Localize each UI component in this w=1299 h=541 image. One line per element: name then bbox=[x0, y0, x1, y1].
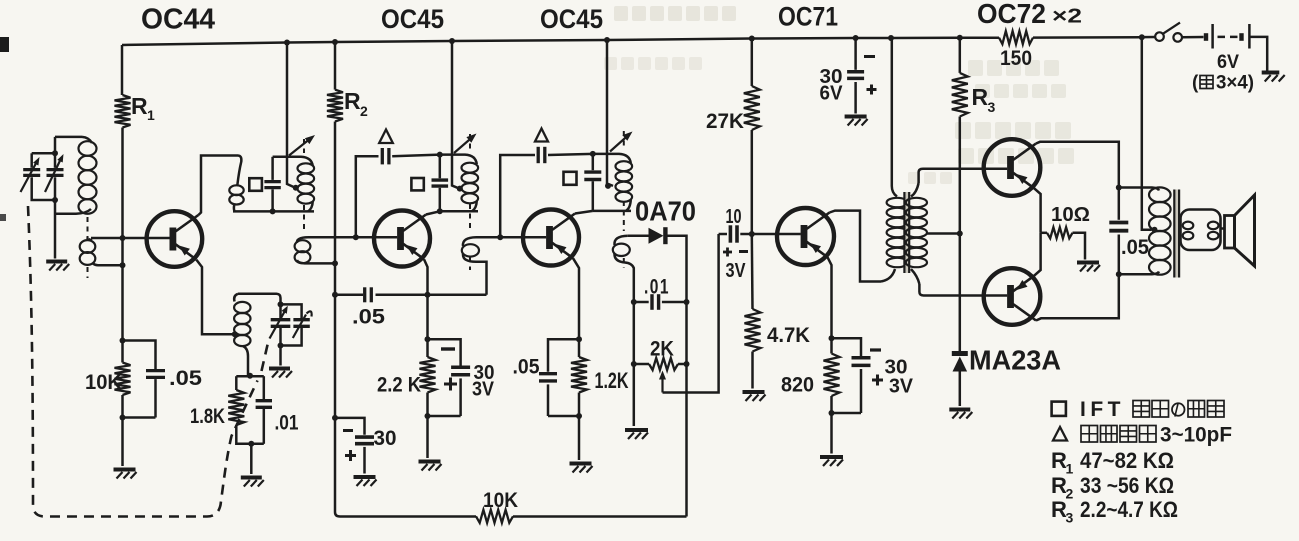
wire: .05 bypass row bbox=[335, 294, 487, 297]
wire: Q1 base bbox=[91, 237, 170, 240]
svg-text:R: R bbox=[344, 88, 361, 114]
svg-text:1.2K: 1.2K bbox=[595, 368, 629, 393]
IFT2 tuned winding (4 loops) bbox=[462, 163, 479, 212]
svg-text:MA23A: MA23A bbox=[969, 345, 1061, 376]
ground (antenna) bbox=[46, 262, 69, 271]
variable capacitor VC2a (osc, ganged) bbox=[270, 306, 291, 339]
square marker (IFT2 cap) bbox=[411, 178, 423, 190]
svg-text:.01: .01 bbox=[644, 276, 670, 299]
capacitor .05 (across T2 primary) bbox=[1109, 188, 1128, 275]
wire: AGC bottom rail bbox=[340, 515, 687, 518]
trimmer arrow (IFT3) bbox=[610, 132, 633, 152]
capacitor 30uF 3V (Q2 emitter) bbox=[451, 367, 470, 416]
svg-text:×2: ×2 bbox=[1052, 6, 1082, 28]
variable capacitor VC1b (antenna trimmer) bbox=[45, 154, 64, 192]
polarity marks (Q2 emitter cap) bbox=[441, 349, 457, 391]
label MA23A bbox=[969, 345, 1061, 376]
wire: Q4 collector bbox=[830, 211, 882, 282]
resistor 4.7K bbox=[745, 234, 761, 389]
svg-text:820: 820 bbox=[781, 374, 814, 397]
polarity marks 30uF AGC bbox=[343, 431, 356, 462]
label 30 3V (Q2) bbox=[472, 362, 495, 401]
transistor Q2 OC45 bbox=[374, 211, 430, 267]
label 150 (rail resistor) bbox=[1000, 47, 1032, 70]
svg-text:4.7K: 4.7K bbox=[767, 324, 810, 347]
trimmer arrow (IFT1) bbox=[289, 135, 315, 156]
label 0A70 bbox=[635, 196, 696, 227]
wire: Q2 base bbox=[308, 236, 397, 239]
svg-text:6V: 6V bbox=[820, 83, 844, 105]
label OC45 (second IF amp) bbox=[540, 4, 603, 34]
capacitor .05 (Q2 stage) bbox=[365, 287, 372, 302]
svg-text:0A70: 0A70 bbox=[635, 196, 696, 227]
bleed-through ghost text (center small) bbox=[604, 57, 952, 184]
svg-text:R: R bbox=[131, 93, 148, 119]
wire: Q3 collector bbox=[575, 211, 593, 214]
svg-text:OC44: OC44 bbox=[141, 4, 215, 36]
wire: antenna top bbox=[55, 136, 82, 139]
diode MA23A bbox=[952, 354, 968, 407]
junction dots (detector left line) bbox=[631, 299, 637, 367]
capacitor (IFT2 tuning) bbox=[432, 155, 449, 212]
capacitor 10uF 3V (AF coupling) bbox=[719, 225, 752, 242]
svg-text:3~10pF: 3~10pF bbox=[1160, 424, 1232, 447]
svg-text:10Ω: 10Ω bbox=[1051, 204, 1090, 226]
junction dot (Q2 emitter/.05) bbox=[425, 292, 431, 298]
ground (30uF 6V) bbox=[845, 117, 868, 126]
wire: T1 secondary bottom to Q6 base bbox=[919, 284, 1007, 296]
battery B1 6V bbox=[1206, 24, 1267, 71]
label 10K bbox=[85, 371, 122, 394]
resistor 10K (AGC) bbox=[476, 510, 513, 523]
wire: 1.8K/.01 bottom join bbox=[236, 425, 263, 474]
legend line 4 R2 bbox=[1051, 473, 1174, 502]
junction dots (R2 line) bbox=[332, 260, 338, 421]
junction dots (detector right line) bbox=[684, 299, 690, 367]
IFT3 secondary coil (to detector) bbox=[613, 236, 634, 426]
junction dots (Q1 bias node) bbox=[120, 235, 126, 268]
T2 secondary winding bbox=[1181, 210, 1221, 251]
resistor 10 ohm bbox=[1041, 227, 1085, 259]
ground (4.7K) bbox=[743, 392, 766, 401]
label .05 (Q1) bbox=[169, 367, 202, 390]
svg-text:3×4): 3×4) bbox=[1216, 73, 1254, 94]
label 1.2K bbox=[595, 368, 629, 393]
wire: AGC cap branch bbox=[335, 418, 365, 435]
resistor 1.8K bbox=[228, 390, 244, 425]
wire: 10K/.05 top join bbox=[123, 341, 156, 370]
variable capacitor VC2b (osc trimmer) bbox=[293, 311, 312, 338]
wire: neutralizing riser (Q3) bbox=[497, 155, 535, 240]
label 2.2K bbox=[377, 374, 421, 397]
label .01 (osc) bbox=[275, 412, 299, 435]
label 6V bbox=[1217, 52, 1239, 73]
triangle marker (Q3 neutralizing) bbox=[535, 129, 548, 142]
label 820 bbox=[781, 374, 814, 397]
wire: IFT1 secondary return bbox=[307, 262, 335, 265]
wire: .05/1.2K top join bbox=[548, 339, 579, 372]
wire: Q4 base bbox=[752, 233, 801, 236]
junction dot (1.2K top) bbox=[576, 336, 582, 342]
capacitor 30uF 3V (Q4 emitter) bbox=[852, 358, 871, 413]
bleed-through ghost text row (upper right) bbox=[968, 60, 1066, 98]
svg-text:10K: 10K bbox=[483, 489, 518, 512]
polarity marks (Q4 emitter cap) bbox=[870, 350, 883, 386]
svg-text:1: 1 bbox=[147, 107, 155, 123]
svg-text:10K: 10K bbox=[85, 371, 122, 394]
svg-text:OC45: OC45 bbox=[381, 4, 444, 34]
wire: 10K/.05 bottom join bbox=[120, 395, 156, 466]
IFT3 tuned winding (4 loops) bbox=[616, 161, 633, 211]
svg-text:.05: .05 bbox=[352, 306, 385, 329]
capacitor .01 (detector) bbox=[634, 294, 687, 310]
T1 primary winding bbox=[881, 198, 908, 282]
resistor 2.2K bbox=[420, 357, 436, 393]
T2 primary winding bbox=[1149, 187, 1171, 274]
wire: neutralizing riser (Q2) bbox=[353, 156, 379, 240]
wire: 1.2K bottom join bbox=[548, 393, 582, 461]
svg-text:R: R bbox=[972, 84, 989, 110]
wiper arrow (2K) bbox=[659, 371, 666, 393]
IFT2 secondary coil (to Q3 base) bbox=[462, 237, 479, 262]
legend line 2 neutralizing bbox=[1081, 424, 1232, 447]
junction dots (T2 primary) bbox=[1116, 185, 1122, 278]
wire: T2 primary top bbox=[1119, 188, 1159, 191]
legend line 5 R3 bbox=[1051, 497, 1178, 526]
svg-text:2.2~4.7 KΩ: 2.2~4.7 KΩ bbox=[1080, 497, 1178, 522]
svg-text:6V: 6V bbox=[1217, 52, 1239, 73]
wire: IFT1 top line bbox=[273, 157, 313, 166]
svg-text:47~82 KΩ: 47~82 KΩ bbox=[1080, 448, 1174, 473]
label OC72 x2 bbox=[977, 0, 1082, 29]
polarity marks (30uF 6V) bbox=[864, 57, 877, 95]
core dashes (antenna coil) bbox=[87, 217, 89, 278]
wire: 820/cap top join bbox=[832, 338, 862, 356]
svg-text:30: 30 bbox=[374, 427, 397, 450]
switch S1 bbox=[1142, 23, 1204, 42]
core dashes (IFT2) bbox=[469, 134, 471, 270]
svg-text:3V: 3V bbox=[889, 376, 914, 398]
wire: Q2 collector bbox=[426, 211, 440, 214]
svg-text:OC71: OC71 bbox=[778, 2, 838, 32]
wire: 2.2K/cap top join bbox=[428, 339, 461, 365]
wire: IFT2 secondary return bbox=[476, 262, 487, 295]
wire: IFT1 bottom line bbox=[233, 210, 314, 213]
resistor 820 bbox=[824, 354, 840, 397]
wire: 1.8K/.01 top join bbox=[236, 376, 263, 399]
wire: Q6 collector bbox=[1036, 274, 1119, 320]
ground (10 ohm) bbox=[1077, 263, 1100, 272]
polarity marks (10uF) bbox=[723, 248, 748, 257]
square marker (IFT1 cap) bbox=[249, 178, 262, 191]
label 10 (coupling) bbox=[726, 206, 742, 228]
junction dot (820 top) bbox=[829, 335, 835, 341]
junction dots (antenna box) bbox=[52, 150, 58, 203]
svg-text:.01: .01 bbox=[275, 412, 299, 435]
T1 secondary winding bbox=[906, 183, 927, 284]
junction dot (osc tap) bbox=[232, 331, 238, 337]
label R1 bbox=[131, 93, 155, 123]
wire: oscillator tank top bbox=[238, 294, 281, 305]
wire: Q3 base bbox=[476, 236, 546, 239]
svg-text:2.2 K: 2.2 K bbox=[377, 374, 421, 397]
dashed gang link (tuning capacitor) bbox=[28, 206, 269, 517]
label 2K bbox=[650, 338, 674, 361]
svg-text:2K: 2K bbox=[650, 338, 674, 361]
junction dot (10K top) bbox=[120, 338, 126, 344]
wire: wiper to coupling cap bbox=[663, 234, 719, 393]
resistor R2 bbox=[327, 42, 343, 517]
wire: T1 primary top riser bbox=[892, 38, 897, 197]
label 10K (AGC) bbox=[483, 489, 518, 512]
wire: 2.2K bottom join bbox=[425, 393, 461, 459]
T1 core bbox=[904, 192, 909, 273]
svg-text:(: ( bbox=[1192, 73, 1199, 94]
label 4.7K bbox=[767, 324, 810, 347]
label R2 bbox=[344, 88, 368, 119]
variable capacitor VC1a (antenna) bbox=[21, 157, 41, 192]
wire: Q5 collector bbox=[1036, 142, 1119, 188]
bleed-through ghost text block (right mid) bbox=[955, 122, 1074, 164]
label .05 (Q3 emitter) bbox=[513, 356, 540, 379]
label (tan-3 x4) bbox=[1192, 73, 1254, 94]
svg-text:.05: .05 bbox=[513, 356, 540, 379]
label 3V (coupling) bbox=[726, 260, 747, 282]
antenna coupling coil L1b bbox=[80, 238, 98, 265]
wire: 820 bottom join bbox=[829, 396, 862, 454]
wire: T2 primary bottom bbox=[1119, 272, 1159, 275]
IFT1 secondary coil (to Q2 base) bbox=[295, 237, 311, 263]
ground (osc tank) bbox=[269, 369, 292, 378]
capacitor (IFT1 tuning) bbox=[264, 157, 280, 215]
resistor R3 bbox=[952, 38, 968, 351]
wire: +6V supply rail bbox=[122, 31, 1142, 45]
label 30 3V (Q4) bbox=[885, 357, 914, 398]
wire: neutralizing to IFT3 top bbox=[548, 151, 596, 157]
label 30 6V bbox=[820, 66, 844, 105]
label .01 (detector) bbox=[644, 276, 670, 299]
transistor Q3 OC45 bbox=[523, 210, 579, 266]
label OC45 (first IF amp) bbox=[381, 4, 444, 34]
wire: Q4 emitter bbox=[828, 257, 832, 353]
wire: osc tank caps frame bbox=[281, 304, 302, 365]
svg-text:1.8K: 1.8K bbox=[190, 405, 225, 428]
svg-text:OC45: OC45 bbox=[540, 4, 603, 34]
triangle marker (Q2 neutralizing) bbox=[379, 130, 393, 144]
svg-text:3V: 3V bbox=[472, 379, 495, 401]
transistor Q5 OC72 (upper) bbox=[984, 139, 1041, 196]
wire: IFT1 primary entry bbox=[237, 156, 241, 186]
capacitor 30uF 6V (decoupling) bbox=[847, 38, 864, 114]
IFT1 tuned winding (4 loops) bbox=[298, 163, 315, 211]
resistor 10K (Q1 bias) bbox=[115, 363, 131, 396]
resistor R1 (wire from rail with R1) bbox=[115, 45, 131, 363]
wire: neutralizing to IFT2 top bbox=[392, 152, 443, 158]
capacitor .05 (Q3 emitter) bbox=[539, 374, 557, 416]
core dashes (IFT3) bbox=[623, 131, 625, 268]
oscillator coil L2 bbox=[234, 294, 250, 376]
wire: Q5 emitter bbox=[1034, 188, 1041, 233]
label 27K bbox=[706, 110, 744, 133]
wire: Q1 emitter to oscillator coil bbox=[196, 260, 232, 335]
junction dot (Q4 base) bbox=[749, 231, 755, 237]
resistor 27K bbox=[744, 39, 760, 235]
wire: IFT3 bottom line bbox=[593, 210, 631, 213]
wire: Q3 emitter bbox=[573, 258, 579, 357]
wire: Q1 collector riser bbox=[198, 156, 238, 216]
bleed-through ghost text row (top center) bbox=[614, 6, 736, 21]
svg-text:33 ~56 KΩ: 33 ~56 KΩ bbox=[1080, 473, 1174, 498]
legend line 1 IFT bbox=[1080, 398, 1224, 421]
wire: supply tap to IFT2 bbox=[452, 41, 463, 192]
label 10 ohm bbox=[1051, 204, 1090, 226]
svg-text:3: 3 bbox=[988, 99, 996, 115]
wire: IFT2 top line bbox=[440, 155, 477, 164]
label 30 (AGC) bbox=[374, 427, 397, 450]
capacitor .01 (osc) bbox=[256, 401, 272, 444]
wire: Q6 emitter bbox=[1034, 233, 1041, 276]
junction dot (1.8K top) bbox=[247, 373, 253, 379]
core dashes (IFT1) bbox=[303, 139, 305, 233]
capacitor 30uF (AGC) bbox=[355, 437, 374, 473]
ground (AGC cap) bbox=[354, 477, 377, 486]
svg-text:10: 10 bbox=[726, 206, 742, 228]
scan edge artifact top-left bbox=[0, 37, 9, 221]
label R3 bbox=[972, 84, 996, 115]
svg-text:2: 2 bbox=[360, 103, 368, 119]
label 1.8K bbox=[190, 405, 225, 428]
ground (detector) bbox=[625, 430, 648, 439]
diode 0A70 bbox=[628, 227, 687, 516]
svg-text:3V: 3V bbox=[726, 260, 747, 282]
capacitor (Q3 neutralizing 3-10pF) bbox=[538, 147, 545, 163]
capacitor (IFT3 tuning) bbox=[584, 154, 601, 211]
wire: supply tap to IFT1 bbox=[287, 43, 299, 191]
wire: T1 secondary top to Q5 base bbox=[919, 169, 1008, 183]
legend triangle marker bbox=[1053, 427, 1067, 441]
label OC71 bbox=[778, 2, 838, 32]
trimmer arrow (IFT2) bbox=[454, 134, 477, 154]
speaker SP bbox=[1221, 195, 1255, 266]
junction dot (2.2K top) bbox=[425, 336, 431, 342]
ground (battery) bbox=[1262, 73, 1285, 82]
legend line 3 R1 bbox=[1051, 448, 1174, 477]
label OC44 bbox=[141, 4, 215, 36]
ground (Q1 bias) bbox=[114, 470, 137, 479]
T2 core bbox=[1174, 190, 1179, 278]
ground (MA23A) bbox=[949, 410, 972, 419]
capacitor .05 (Q1 bias) bbox=[146, 371, 165, 418]
wire: T1 center tap bbox=[926, 231, 963, 237]
svg-text:IFT: IFT bbox=[1080, 398, 1125, 421]
svg-text:OC72: OC72 bbox=[977, 0, 1046, 29]
resistor 1.2K bbox=[571, 357, 587, 393]
transistor Q1 OC44 bbox=[147, 211, 203, 267]
volume potentiometer 2K bbox=[634, 358, 687, 370]
wire: IFT2 bottom line bbox=[437, 208, 478, 214]
junction dots (osc tank) bbox=[278, 301, 284, 348]
svg-text:.05: .05 bbox=[1121, 236, 1149, 259]
svg-text:3: 3 bbox=[1066, 510, 1074, 526]
label .05 (output) bbox=[1121, 236, 1149, 259]
ground (Q2 emitter) bbox=[419, 462, 442, 471]
junction dots on supply rail bbox=[284, 34, 1145, 45]
legend square marker bbox=[1052, 402, 1066, 416]
svg-text:.05: .05 bbox=[169, 367, 202, 390]
wire: IFT3 top line bbox=[593, 154, 631, 163]
label .05 (Q2 stage) bbox=[352, 306, 385, 329]
ground (oscillator) bbox=[241, 478, 264, 487]
transistor Q6 OC72 (lower) bbox=[984, 268, 1041, 325]
square marker (IFT3 cap) bbox=[564, 172, 577, 185]
wire: battery feed to T2 center tap bbox=[1142, 37, 1158, 233]
ground (Q4 emitter) bbox=[820, 457, 843, 466]
wire: Q2 emitter bbox=[424, 259, 428, 357]
transistor Q4 OC71 bbox=[777, 208, 834, 265]
IFT1 primary coil (2 loops) bbox=[229, 185, 243, 211]
svg-text:27K: 27K bbox=[706, 110, 744, 133]
wire: antenna coil return bbox=[98, 264, 123, 267]
svg-text:150: 150 bbox=[1000, 47, 1032, 70]
wire: supply tap to IFT3 bbox=[605, 40, 613, 189]
capacitor (Q2 neutralizing 3-10pF) bbox=[382, 148, 389, 164]
wire: antenna cap box bbox=[32, 137, 55, 259]
ground (Q3 emitter) bbox=[570, 464, 593, 473]
antenna coil L1 (ferrite bar primary) bbox=[55, 137, 97, 214]
